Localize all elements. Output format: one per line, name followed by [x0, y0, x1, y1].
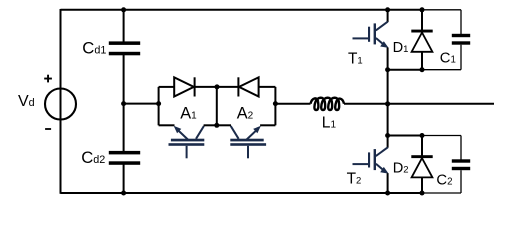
- inductor L1 coil: [311, 98, 345, 110]
- wire C2 lower lead: [460, 170, 462, 193]
- wire C1 upper lead: [460, 10, 462, 34]
- wire D2 bottom lead: [421, 177, 423, 193]
- svg-text:A1: A1: [180, 105, 197, 123]
- node T1 emitter junction: [385, 67, 390, 72]
- capacitor Cd2 plates: [109, 151, 140, 165]
- svg-text:L1: L1: [322, 114, 337, 131]
- node top rail Cd1: [121, 7, 126, 12]
- node mid rail capacitor midpoint: [121, 101, 126, 106]
- wire D1C1 loop bottom thin: [422, 69, 461, 71]
- svg-text:C1: C1: [440, 51, 456, 67]
- node top rail T1 collector: [385, 7, 390, 12]
- node mid rail half-bridge midpoint: [385, 101, 390, 106]
- svg-text:Cd2: Cd2: [81, 148, 105, 167]
- node mid rail A-block right: [273, 101, 278, 106]
- node bottom rail Cd2: [121, 191, 126, 196]
- wire D1C1 loop bottom: [388, 69, 422, 71]
- wire A-block right vertical: [274, 87, 276, 125]
- node D1 bottom junction: [420, 67, 425, 72]
- svg-text:Vd: Vd: [18, 93, 35, 110]
- capacitor C2 plates: [452, 159, 470, 170]
- svg-text:D1: D1: [393, 40, 409, 56]
- wire D1 top lead: [421, 10, 423, 30]
- wire C2 upper lead: [460, 136, 462, 160]
- wire T1 emitter lead: [387, 48, 389, 70]
- wire C2 bottom thin: [422, 192, 461, 194]
- wire D2 top lead: [421, 136, 423, 156]
- wire D1 bottom lead: [421, 52, 423, 70]
- wire A-block left vertical: [158, 87, 160, 125]
- wire T1 collector lead: [387, 10, 389, 22]
- svg-text:D2: D2: [393, 161, 409, 177]
- wire mid rail after inductor: [344, 103, 494, 105]
- capacitor Cd1 branch wire lower: [123, 55, 125, 104]
- node A1-A2 common point: [214, 123, 219, 128]
- capacitor Cd1 branch wire upper: [123, 10, 125, 42]
- wire mid rail left: [124, 103, 159, 105]
- wire half-bridge mid vertical: [387, 70, 389, 136]
- wire C1 lower lead: [460, 45, 462, 70]
- diode of module A2: [238, 77, 258, 96]
- wire diode row middle segment: [195, 86, 238, 88]
- node diode midpoint: [215, 84, 220, 89]
- node top rail D1: [420, 7, 425, 12]
- diode D2: [411, 155, 432, 177]
- transistor A2 (GTO symbol, navy): [230, 126, 266, 159]
- wire bottom rail: [61, 192, 423, 194]
- wire mid rail before inductor: [275, 103, 310, 105]
- wire T2 emitter lead: [387, 173, 389, 193]
- wire left rail: [60, 9, 62, 194]
- wire diode row right segment: [259, 86, 276, 88]
- node bottom rail T2 emitter: [385, 191, 390, 196]
- diode D1: [411, 30, 432, 52]
- capacitor Cd2 branch wire lower: [123, 165, 125, 194]
- wire top rail: [61, 9, 423, 11]
- voltage source plus sign: [44, 75, 52, 83]
- svg-text:T2: T2: [347, 171, 362, 188]
- wire T2 collector lead: [387, 136, 389, 148]
- voltage source minus sign: [45, 128, 51, 130]
- wire C1 top thin: [422, 9, 461, 11]
- node mid rail A-block left: [156, 101, 161, 106]
- transistor T1 (IGBT, navy): [353, 22, 389, 48]
- wire A1 right horizontal: [204, 124, 217, 126]
- voltage source Vd circle: [45, 89, 76, 120]
- wire center vertical between diode row and IGBT row: [216, 87, 218, 125]
- transistor A1 (GTO symbol, navy): [169, 126, 205, 159]
- svg-text:Cd1: Cd1: [82, 38, 106, 57]
- wire A1 left horizontal: [159, 124, 175, 126]
- wire D2C2 loop top: [388, 135, 422, 137]
- capacitor C1 plates: [452, 34, 470, 45]
- wire A2 left horizontal: [217, 124, 231, 126]
- wire diode row left segment: [159, 86, 175, 88]
- svg-text:C2: C2: [436, 173, 452, 189]
- capacitor Cd2 branch wire upper: [123, 104, 125, 152]
- node bottom rail D2: [420, 191, 425, 196]
- capacitor Cd1 plates: [109, 41, 140, 55]
- svg-text:T1: T1: [348, 51, 363, 68]
- node D2 top junction: [420, 133, 425, 138]
- wire D2C2 loop top thin: [422, 135, 461, 137]
- diode of module A1: [174, 77, 194, 96]
- transistor T2 (IGBT, navy): [353, 147, 389, 173]
- wire A2 right horizontal: [260, 124, 275, 126]
- svg-text:A2: A2: [237, 105, 254, 123]
- node T2 collector junction: [385, 133, 390, 138]
